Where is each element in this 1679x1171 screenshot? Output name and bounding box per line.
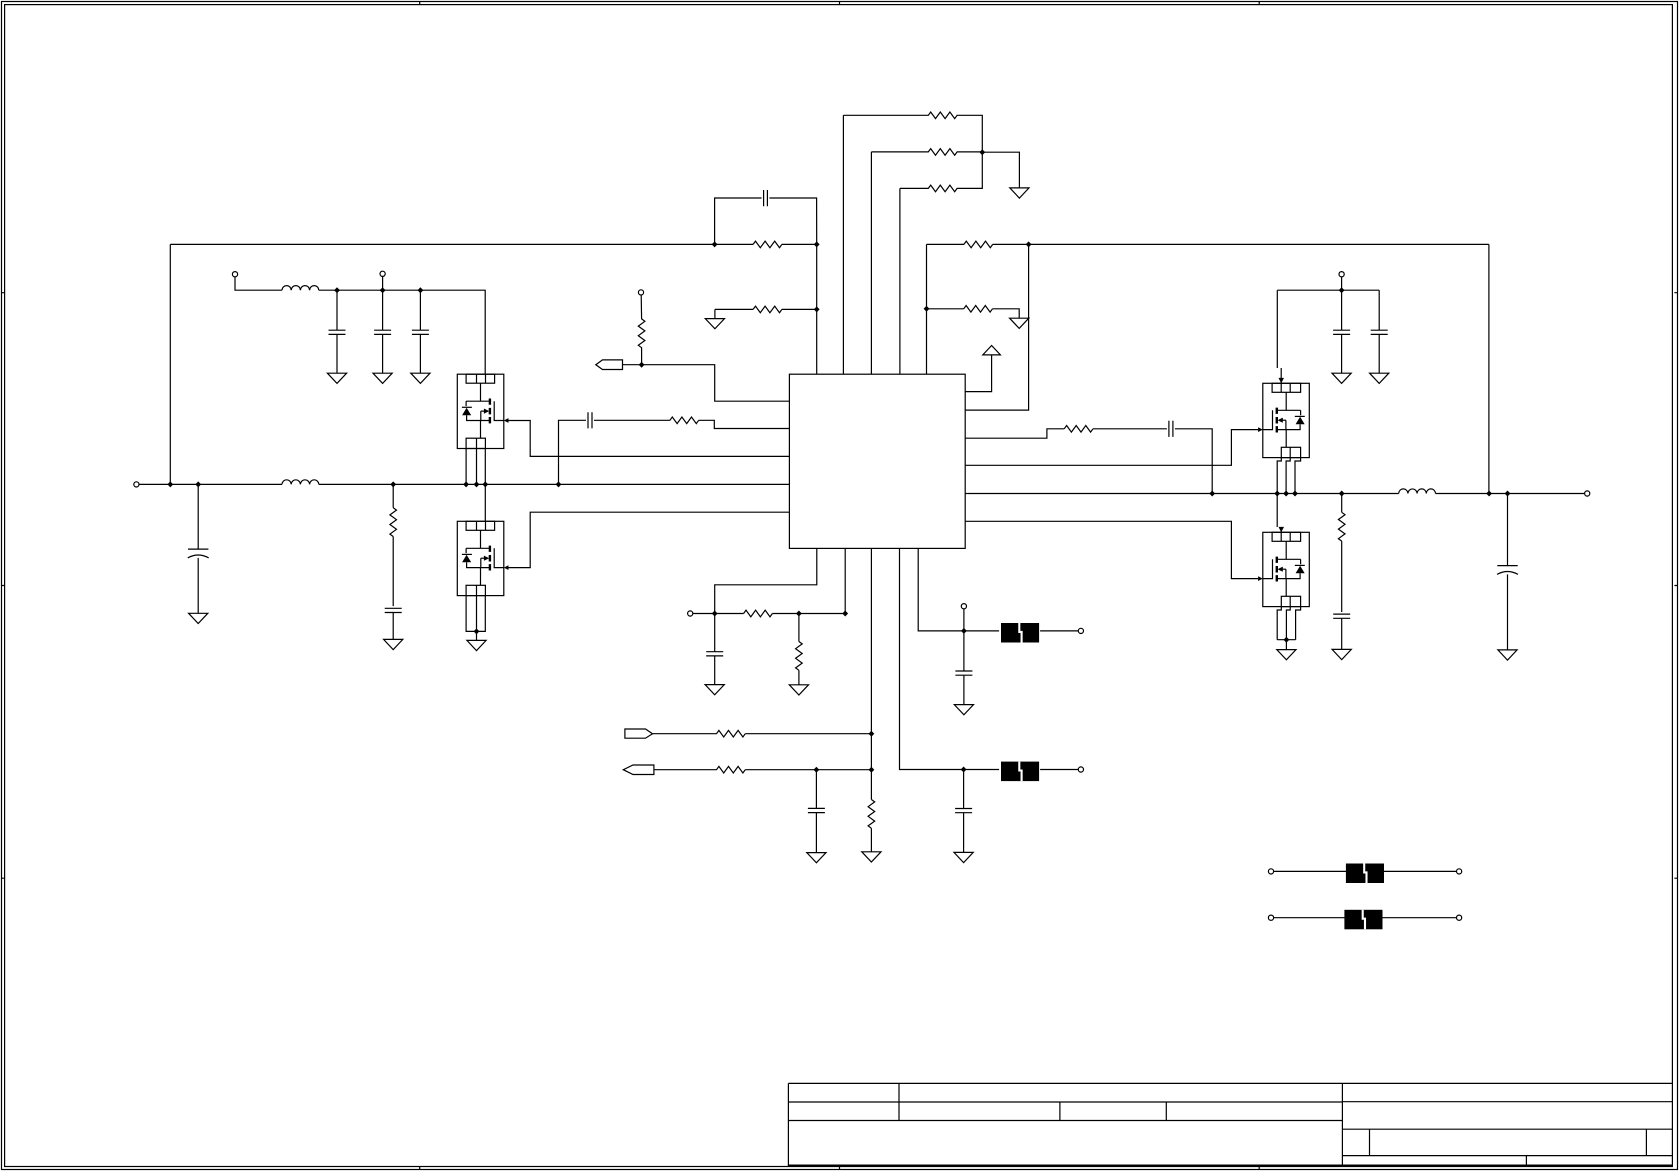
node row1 left junction [712, 611, 718, 617]
ground G7 [189, 613, 208, 623]
wire bead row 4 right [1383, 917, 1457, 919]
wire T8 drop [963, 609, 965, 631]
resistor R1 [843, 114, 928, 116]
ground G11 [1285, 640, 1287, 650]
wire T2 drop [382, 276, 384, 290]
wire IC left pin 5 to Q2 gate [509, 512, 790, 567]
wire IC right pin 2 riser [965, 244, 1028, 410]
resistor R9 sense left [392, 484, 394, 507]
terminal T6 [1339, 272, 1344, 277]
wire F1 to IC left pin 1 [623, 365, 790, 402]
resistor R11 sense right [1341, 494, 1343, 513]
node C4 tap [418, 287, 424, 293]
wire bus to Q4 drain [1277, 494, 1281, 533]
ground G5 [1010, 188, 1029, 198]
wire main left bus [139, 483, 282, 485]
terminal T3 [638, 290, 643, 295]
inductor L3 output [1399, 489, 1436, 494]
inductor L2 input top [282, 286, 319, 291]
resistor R4 top right [927, 243, 965, 245]
wire Q4 entry arrow [1279, 527, 1285, 532]
node pin3 row1 junction [869, 731, 875, 737]
ground G8 [384, 639, 403, 649]
ground G4 [714, 309, 716, 318]
wire IC top pin 5 riser [926, 244, 928, 374]
capacitor C7 feedback top [715, 198, 762, 244]
ground G3 [411, 373, 430, 383]
capacitor C4 [419, 290, 421, 330]
wire bead row 3 right [1384, 870, 1457, 872]
wire IC bottom pin 4 [900, 548, 964, 769]
wire to ground G5 [982, 152, 1019, 188]
node FB junction [814, 241, 820, 247]
ferrite bead FB1 [1001, 623, 1039, 643]
ferrite bead FB3 [1346, 864, 1384, 884]
title block right dividers [1370, 1129, 1647, 1166]
ground G18 [954, 705, 973, 715]
terminal T4 main input [134, 482, 139, 487]
node output cap tap [1505, 491, 1511, 497]
terminal T12 [1457, 869, 1462, 874]
title block bottom heavy line [788, 1164, 1672, 1166]
node bead2 junction [961, 767, 967, 773]
wire IC bottom pin 3 [870, 548, 872, 799]
node C5 tap [1339, 287, 1345, 293]
wire Q4 source pins [1277, 607, 1300, 640]
wire IC right pin 3 [965, 429, 1064, 438]
node C2 tap [334, 287, 340, 293]
wire from T1 [235, 277, 282, 291]
capacitor C6 [1378, 290, 1380, 330]
transistor Q2 lower left MOSFET [457, 521, 508, 595]
resistor R6 to ground [715, 308, 753, 310]
wire output bus [965, 493, 1398, 495]
wire rail to Q3 drain [1277, 290, 1281, 383]
ground G1 [327, 373, 346, 383]
wire bead row 4 left [1273, 917, 1344, 919]
wire IC bottom pin 1 [715, 548, 817, 613]
transistor Q1 upper left MOSFET [457, 374, 508, 448]
resistor R2 [871, 151, 928, 153]
capacitor C14 [815, 770, 817, 809]
wire IC right pin 6 to Q4 gate [965, 521, 1258, 578]
wire IC right pin 1 to power [965, 355, 991, 392]
wire IC top pin 2 riser [842, 115, 844, 374]
node Q4 source tie [1284, 637, 1290, 643]
capacitor C16 [963, 770, 965, 809]
wire output bus right [1436, 493, 1585, 495]
node rail riser junction [1486, 491, 1492, 497]
ferrite bead FB4 [1344, 910, 1382, 930]
title block left dividers [899, 1083, 1166, 1120]
ground G6 [1010, 318, 1029, 328]
wire to bead FB2 [964, 769, 1000, 771]
resistor R16 pin3 to ground [868, 800, 875, 829]
capacitor C8 series left [559, 420, 587, 484]
wire row flag F3 [654, 769, 717, 771]
resistor R12 [744, 610, 773, 617]
ground G13 [1498, 650, 1517, 660]
title block right rows [1342, 1102, 1672, 1156]
ground G12b [1370, 373, 1389, 383]
net flag F1 [596, 360, 623, 370]
ferrite bead FB2 [1001, 762, 1039, 782]
node C8 tap [556, 481, 562, 487]
node R1-R2 junction [979, 149, 985, 155]
wire left rail vertical [169, 244, 171, 484]
resistor R17 to ground [927, 308, 964, 310]
transistor Q3 upper right MOSFET [1258, 383, 1309, 457]
net flag F2 [625, 729, 653, 738]
wire IC top pin 1 to FB node [816, 244, 818, 374]
wire Q1 source / Q2 drain feed [484, 449, 486, 522]
resistor R5 top feedback [753, 241, 782, 248]
wire top-left rail [319, 290, 485, 374]
wire IC bottom pin 5 [918, 548, 964, 631]
node comp tap [1209, 491, 1215, 497]
wire Q2 source pins [466, 596, 485, 632]
node pin3 row2 junction [869, 767, 875, 773]
title block outline [788, 1083, 1672, 1166]
resistor R7 vertical [640, 295, 642, 320]
capacitor C10 comp [1169, 421, 1173, 437]
ground G9 [476, 631, 478, 640]
power symbol PWR1 [983, 346, 1001, 355]
node rail drop junction [167, 481, 173, 487]
capacitor C3 [382, 290, 384, 330]
ground G19 [954, 852, 973, 862]
wire IC top pin 4 riser [899, 188, 901, 374]
terminal T2 [380, 271, 385, 276]
wire FB1 out [1040, 630, 1078, 632]
node C14 tap [814, 767, 820, 773]
node row1 right junction [842, 611, 848, 617]
wire IC right pin 4 to Q3 gate [965, 430, 1258, 466]
capacitor C2 [336, 290, 338, 330]
terminal T10 [1078, 767, 1083, 772]
terminal T7 [688, 611, 693, 616]
resistor R8 series left [670, 417, 699, 424]
node sense tap [390, 481, 396, 487]
ground G12a [1332, 373, 1351, 383]
terminal T13 [1268, 915, 1273, 920]
wire to bead FB1 [964, 630, 999, 632]
terminal T11 [1268, 869, 1273, 874]
resistor R14 [717, 730, 746, 737]
terminal T14 [1457, 915, 1462, 920]
capacitor C9 [385, 608, 402, 612]
resistor R13 to ground [798, 614, 800, 642]
node FB left junction [712, 241, 718, 247]
node bead1 junction [961, 628, 967, 634]
wire IC bottom pin 2 [844, 548, 846, 613]
node Q1 source pins [463, 481, 469, 487]
wire row flag F2 [653, 733, 717, 735]
node R17 junction [924, 306, 930, 312]
terminal T5 output [1585, 491, 1590, 496]
capacitor C15 [963, 631, 965, 671]
node Q3 source pins [1274, 491, 1280, 497]
resistor R3 [900, 187, 929, 189]
node Q2 source tie [474, 628, 480, 634]
wire bottom row 1 [693, 613, 744, 615]
wire top rail left segment [170, 243, 753, 245]
wire bead row 3 left [1273, 870, 1346, 872]
ground G17 [862, 852, 881, 862]
wire Q3 entry arrow [1279, 378, 1285, 383]
title block left rows [788, 1102, 1342, 1121]
IC U1 [789, 374, 965, 548]
wire main left bus right part [319, 483, 790, 485]
capacitor C5 [1341, 290, 1343, 330]
resistor R10 comp [1064, 426, 1093, 433]
node C3 tap [380, 287, 386, 293]
node pin R2 top junction [1026, 241, 1032, 247]
capacitor C1 input polarized [197, 484, 199, 548]
wire T6 drop [1341, 277, 1343, 291]
ground G2 [373, 373, 392, 383]
wire IC top pin 3 riser [870, 152, 872, 374]
net flag F3 [623, 765, 654, 775]
terminal T1 VIN [232, 272, 237, 277]
node C1 tap [195, 481, 201, 487]
transistor Q4 lower right MOSFET [1258, 532, 1309, 606]
node sense right tap [1339, 491, 1345, 497]
resistor R15 [717, 766, 746, 773]
terminal T9 [1078, 628, 1083, 633]
node R6 junction on pin1 line [814, 306, 820, 312]
wire FB2 out [1040, 769, 1078, 771]
terminal T8 [961, 604, 966, 609]
ground G10 [1332, 649, 1351, 659]
wire right rail drop to output bus [1488, 244, 1490, 493]
capacitor C11 [1333, 614, 1350, 618]
ground G16 [807, 853, 826, 863]
wire top right rail [1277, 289, 1379, 291]
node row1 mid junction [796, 611, 802, 617]
ground G15 [789, 685, 808, 695]
wire Q1 source pins to bus [466, 449, 476, 485]
wire IC left pin 3 to Q1 gate [509, 421, 790, 457]
capacitor C12 output polarized [1507, 494, 1509, 566]
inductor L1 bus [282, 480, 319, 485]
wire Q3 source pins to bus [1277, 458, 1300, 494]
node R7 junction [639, 362, 645, 368]
ground G14 [705, 685, 724, 695]
capacitor C13 [714, 614, 716, 652]
